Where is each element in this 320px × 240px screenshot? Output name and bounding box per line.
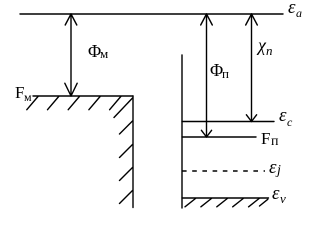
label Phi_m metal work function [88,41,101,62]
node conduction band edge line [182,121,274,123]
node F_p Fermi level line [182,136,256,138]
wire semiconductor surface vertical [181,55,183,208]
wire F_m level line [33,95,133,97]
label epsilon_j intrinsic level [269,157,277,179]
arrow chi_p electron affinity [246,14,258,122]
label epsilon_c conduction band [279,105,287,127]
node valence band edge line [182,197,269,199]
arrow Phi_p work function of semiconductor [201,14,213,137]
metal hatching below F_m line [27,97,121,110]
label F_p semiconductor Fermi level [261,129,270,149]
metal hatching left of surface [114,98,133,204]
valence band hatching [185,199,268,207]
vacuum level line [20,13,283,15]
label F_m metal Fermi level [15,83,24,103]
arrow Phi_m work function of metal [65,14,77,96]
label epsilon_v valence band [272,183,280,205]
label chi_p electron affinity [258,35,266,56]
wire metal surface vertical [132,96,134,208]
node intrinsic level dashed line [182,170,265,172]
label Phi_p semiconductor work function [210,60,223,81]
label epsilon_a vacuum level [288,0,296,19]
